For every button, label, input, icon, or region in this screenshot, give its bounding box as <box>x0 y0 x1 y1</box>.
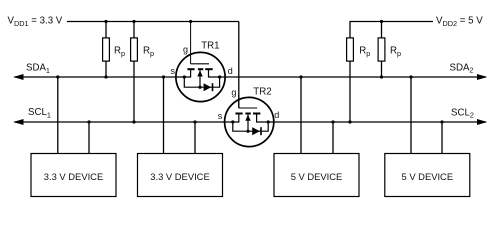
TR1 source stub <box>190 69 192 77</box>
junction dot TR1 source/diode <box>183 75 186 78</box>
TR2 body-diode loop wire <box>233 122 268 131</box>
resistor R3 (Rp pull-up SCL2) <box>347 38 354 122</box>
resistor R2 (Rp pull-up SCL1) <box>131 22 138 123</box>
wire device3 SDA pin <box>300 77 302 154</box>
TR2 source stub <box>238 114 240 123</box>
wire SDA2 bus <box>209 76 487 78</box>
wire SCL2 bus <box>257 121 486 123</box>
junction dot SDA2/device4 <box>409 75 412 78</box>
TR2 gate wire <box>238 95 240 108</box>
svg-text:5 V DEVICE: 5 V DEVICE <box>291 171 343 182</box>
junction dot TR1 drain/diode <box>218 75 221 78</box>
svg-text:5 V DEVICE: 5 V DEVICE <box>402 171 454 182</box>
device box 4 (5 V DEVICE) <box>385 154 470 197</box>
TR2 channel segment (body) <box>245 113 250 115</box>
TR1 channel segment (source) <box>187 68 194 70</box>
junction dot TR2 body/source loop <box>246 130 249 133</box>
wire device3 SCL pin <box>332 122 334 154</box>
junction dot TR2 source/diode <box>231 120 234 123</box>
wire SDA1 bus <box>14 76 190 78</box>
junction dot VDD1/TR1 gate <box>189 20 192 23</box>
device box 3 (5 V DEVICE) <box>274 154 359 197</box>
wire device2 SDA pin <box>163 77 165 154</box>
svg-text:d: d <box>228 66 233 76</box>
junction dot SCL2/R3 <box>348 120 351 123</box>
TR2 body circle <box>225 97 274 146</box>
resistor R4 (Rp pull-up SDA2) <box>378 22 385 78</box>
TR1 channel segment (body) <box>198 68 203 70</box>
TR1 body diode <box>204 83 212 91</box>
junction dot SDA2/device3 <box>299 75 302 78</box>
wire VDD1 rail <box>67 21 239 23</box>
svg-text:TR1: TR1 <box>201 41 219 52</box>
junction dot TR2 drain/diode <box>267 120 270 123</box>
TR1 body-diode loop wire <box>184 77 219 87</box>
wire device1 SCL pin <box>88 122 90 154</box>
device box 2 (3.3 V DEVICE) <box>138 154 223 197</box>
svg-text:g: g <box>183 44 188 54</box>
junction dot SDA2/R4 <box>380 75 383 78</box>
svg-text:3.3 V DEVICE: 3.3 V DEVICE <box>150 171 209 182</box>
junction dot SCL2/device3 <box>331 120 334 123</box>
TR1 body circle <box>176 52 225 101</box>
svg-text:g: g <box>231 87 236 97</box>
TR1 gate bar <box>191 63 209 65</box>
junction dot SDA1/R1 <box>104 75 107 78</box>
svg-text:s: s <box>218 111 223 121</box>
junction dot VDD1/R1 <box>104 20 107 23</box>
arrowhead SDA1 (left) <box>13 74 23 80</box>
resistor R1 (Rp pull-up SDA1) <box>103 22 110 78</box>
TR2 body diode <box>252 127 260 135</box>
TR2 channel segment (drain) <box>253 113 260 115</box>
TR1 channel segment (drain) <box>205 68 213 70</box>
wire device4 SCL pin <box>441 122 443 154</box>
junction dot SCL1/R2 <box>132 120 135 123</box>
junction dot VDD1/R2 <box>132 20 135 23</box>
svg-text:s: s <box>171 66 176 76</box>
TR2 channel segment (source) <box>235 113 242 115</box>
TR1 body stub with arrow <box>199 70 201 87</box>
wire SCL1 bus <box>14 121 238 123</box>
svg-text:d: d <box>274 110 279 120</box>
TR2 drain stub <box>256 114 258 123</box>
TR2 gate bar <box>239 107 257 109</box>
wire device1 SDA pin <box>57 77 59 154</box>
junction dot SDA1/device2 <box>162 75 165 78</box>
arrowhead SDA2 (right) <box>477 74 487 80</box>
svg-text:TR2: TR2 <box>253 86 271 97</box>
wire TR2 gate riser (VDD1 to TR2 gate) <box>238 22 240 109</box>
junction dot TR1 body/source loop <box>198 86 201 89</box>
junction dot SCL2/device4 <box>440 120 443 123</box>
svg-text:3.3 V DEVICE: 3.3 V DEVICE <box>44 171 103 182</box>
wire device2 SCL pin <box>194 122 196 154</box>
transistor TR1 (MOSFET, SDA level shifter) <box>171 22 233 102</box>
junction dot SCL1/device2 <box>193 120 196 123</box>
TR2 body stub with arrow <box>247 114 249 131</box>
device box 1 (3.3 V DEVICE) <box>31 154 116 197</box>
TR1 drain stub <box>208 69 210 77</box>
junction dot SDA1/device1 <box>56 75 59 78</box>
wire VDD2 rail <box>350 22 433 39</box>
TR1 gate wire <box>190 22 192 64</box>
wire device4 SDA pin <box>410 77 412 154</box>
arrowhead SCL1 (left) <box>13 119 23 125</box>
junction dot VDD2/R4 <box>380 20 383 23</box>
transistor TR2 (MOSFET, SCL level shifter) <box>218 86 280 146</box>
arrowhead SCL2 (right) <box>477 119 487 125</box>
junction dot SCL1/device1 <box>87 120 90 123</box>
